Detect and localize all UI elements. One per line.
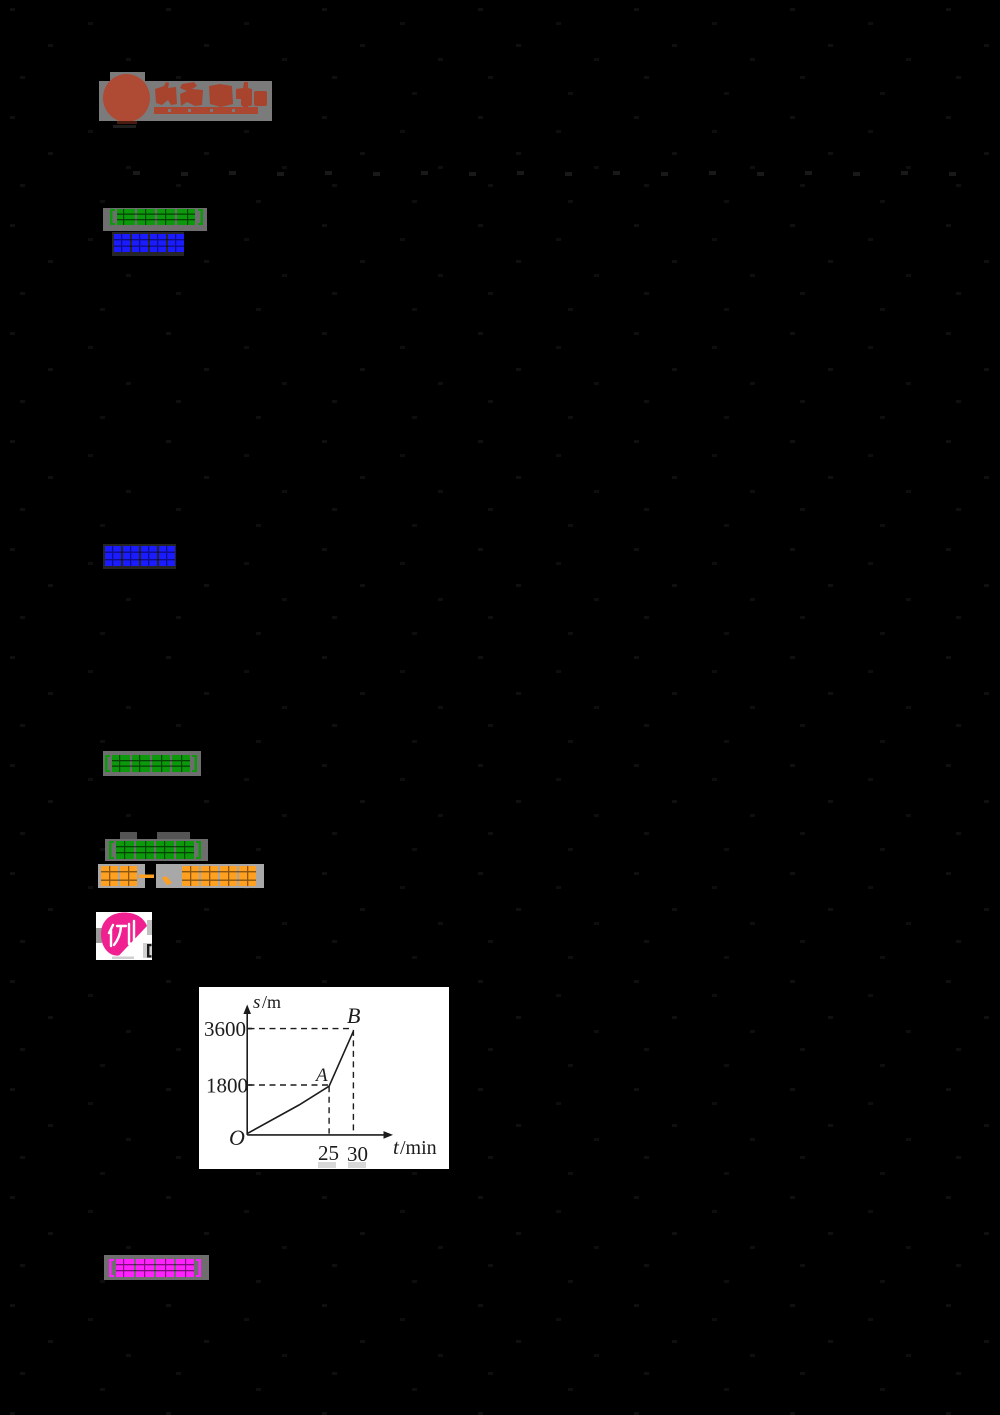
green heading 3 【典型例题】 [105,839,208,861]
svg-text:1800: 1800 [206,1074,248,1098]
logo circle [103,74,150,122]
logo block background [99,81,272,121]
svg-text:A: A [314,1065,328,1086]
curve O-A-B [247,1031,353,1133]
y axis [246,1011,248,1135]
svg-text:/min: /min [400,1137,437,1159]
svg-text:30: 30 [347,1142,368,1166]
logo small dark text under circle [117,121,137,124]
x axis [247,1134,387,1136]
black 【 bracket [147,944,152,958]
svg-text:25: 25 [318,1141,339,1165]
svg-text:/m: /m [262,992,281,1012]
blue subheading 内容解读 [112,232,184,256]
green heading 1 【中考解读】 [103,208,207,231]
例 badge [96,912,152,960]
watermark smudges [318,1162,336,1168]
ticks [247,1029,252,1085]
svg-text:3600: 3600 [204,1017,246,1041]
svg-text:O: O [229,1125,245,1150]
magenta heading 【基础检测】 [104,1255,209,1280]
axis arrowheads [243,1005,251,1015]
logo calligraphy 北京四中网校 [154,80,274,130]
svg-text:B: B [347,1003,360,1028]
blue subheading 能力解读 [103,544,176,569]
svg-text:s: s [253,992,260,1013]
logo url line [154,107,258,114]
gray tabs above green heading 3 [120,832,137,839]
green heading 2 【知识梳理】 [103,751,201,776]
orange line 类型一、行程问题 with gray band [98,864,264,888]
chart image [199,987,449,1169]
